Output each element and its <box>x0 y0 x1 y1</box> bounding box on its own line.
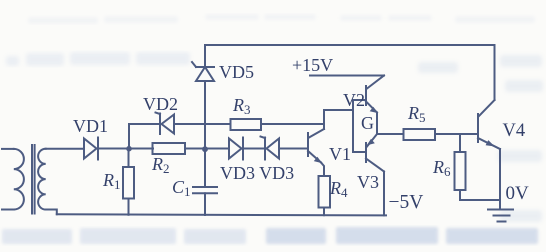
resistor R4 <box>319 176 331 215</box>
svg-text:VD1: VD1 <box>73 116 108 136</box>
svg-text:−5V: −5V <box>389 192 424 213</box>
diode VD3 (second) <box>261 137 309 160</box>
transformer T secondary winding <box>38 149 57 215</box>
svg-text:0V: 0V <box>506 183 530 204</box>
wire: top rail from VD5 to V4 collector <box>205 45 495 100</box>
diode VD5 <box>192 62 214 149</box>
wire: +15V stub <box>310 75 384 77</box>
resistor R6 <box>455 134 501 200</box>
wire: secondary top to VD1 <box>46 148 84 150</box>
capacitor C1 <box>193 149 217 215</box>
resistor R3 <box>231 119 325 130</box>
svg-text:V2: V2 <box>343 90 365 110</box>
svg-text:G: G <box>361 113 374 133</box>
ghost bleed-through text row top <box>28 14 535 24</box>
ghost bleed-through right margin <box>418 55 543 222</box>
ground symbol <box>488 200 513 222</box>
wire: V1 collector to V2/V3 bases <box>324 109 353 111</box>
transistor V2 <box>366 76 384 135</box>
resistor R5 <box>404 129 479 140</box>
wire: G node to R5 <box>377 133 403 135</box>
transformer T core <box>32 145 35 214</box>
svg-text:V3: V3 <box>357 172 379 192</box>
svg-text:VD3 VD3: VD3 VD3 <box>220 163 294 183</box>
ghost bleed-through text row upper-left <box>6 52 190 66</box>
wire: speed-up branch left segment <box>129 123 160 125</box>
transistor V3 <box>366 134 384 215</box>
svg-text:VD5: VD5 <box>219 62 254 82</box>
svg-text:VD2: VD2 <box>143 94 178 114</box>
node L junction dot <box>126 146 132 152</box>
transistor V1 <box>308 110 324 176</box>
resistor R2 <box>153 143 230 154</box>
diode VD1 <box>84 138 129 160</box>
wire: base bus of V2/V3 <box>353 100 366 152</box>
transformer T primary winding <box>2 149 24 210</box>
svg-text:V1: V1 <box>329 144 351 164</box>
transistor V4 <box>478 100 500 200</box>
wire: riser from node L up to speed-up branch <box>128 124 130 149</box>
svg-text:V4: V4 <box>503 121 526 141</box>
wire: VD1 to R2 <box>129 148 153 150</box>
diode VD3 (first) <box>229 138 265 160</box>
diode VD2 <box>156 113 231 135</box>
node M junction dot <box>202 146 208 152</box>
svg-text:+15V: +15V <box>292 55 333 75</box>
bottom -5V rail <box>57 214 386 215</box>
ghost bleed-through text row bottom <box>2 228 246 244</box>
resistor R1 <box>123 149 134 215</box>
